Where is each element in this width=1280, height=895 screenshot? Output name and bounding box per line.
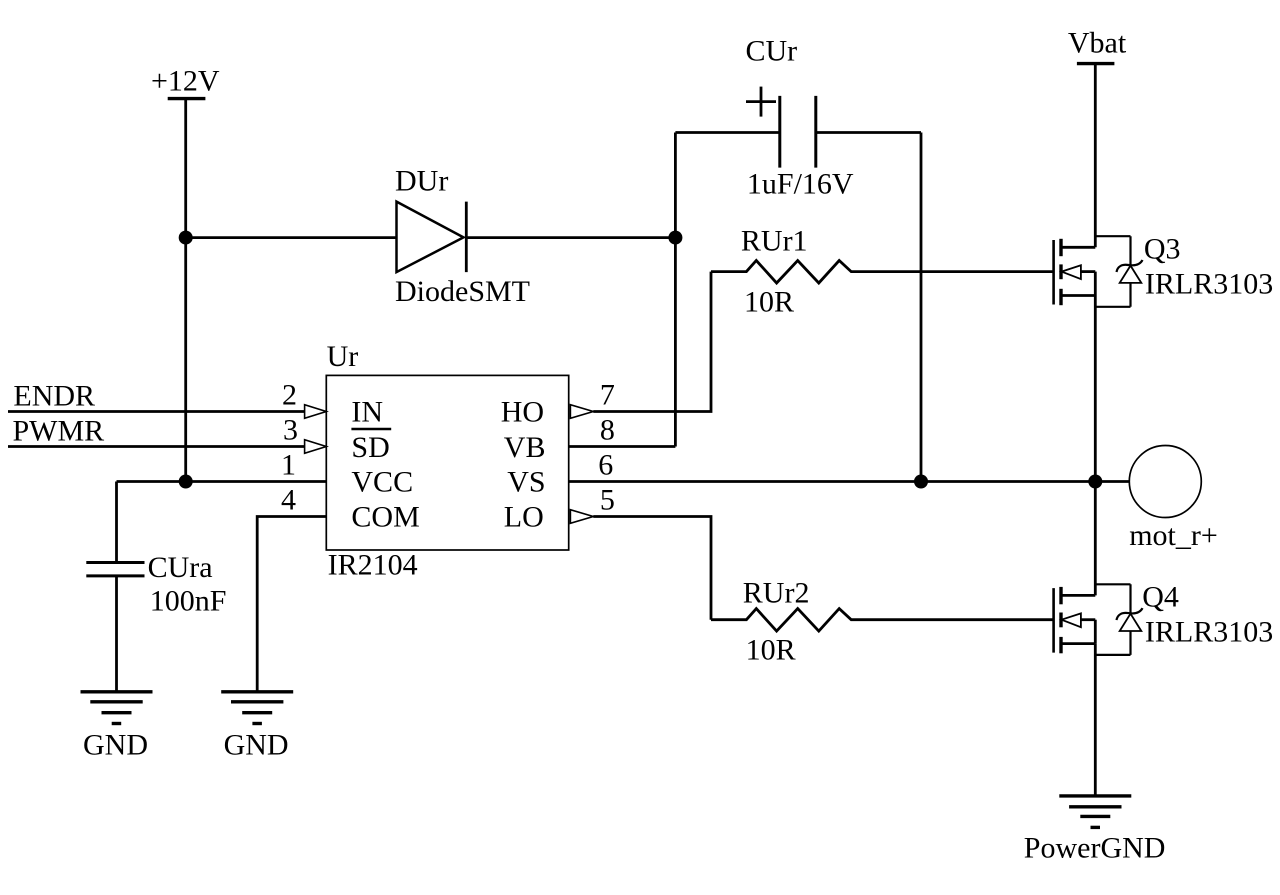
value IRLR3103 Q4 xyxy=(1145,616,1273,649)
node junction +12V/VCC xyxy=(179,475,193,489)
svg-text:VS: VS xyxy=(507,466,545,499)
svg-text:2: 2 xyxy=(282,379,297,412)
wire CUr left lead xyxy=(675,131,779,134)
node junction CUr/VS xyxy=(914,475,928,489)
label GND com xyxy=(224,729,289,762)
svg-text:Q4: Q4 xyxy=(1142,581,1179,614)
value 1uF/16V xyxy=(747,168,854,201)
label CUr xyxy=(746,35,798,68)
svg-text:LO: LO xyxy=(504,501,544,534)
svg-text:IRLR3103: IRLR3103 xyxy=(1145,268,1273,301)
node junction +12V/diode anode xyxy=(179,231,193,245)
svg-text:CUr: CUr xyxy=(746,35,798,68)
svg-text:GND: GND xyxy=(83,729,148,762)
wire HO to RUr1 xyxy=(593,272,711,412)
svg-text:VCC: VCC xyxy=(351,466,413,499)
wire CUr right lead xyxy=(816,131,921,134)
wire Q4 source to PowerGND xyxy=(1094,644,1097,796)
pin label IN xyxy=(351,396,383,429)
svg-text:IRLR3103: IRLR3103 xyxy=(1145,616,1273,649)
label Q3 xyxy=(1144,233,1181,266)
pin 5 output arrow LO xyxy=(570,510,593,524)
overbar of SD xyxy=(351,428,391,431)
svg-text:Q3: Q3 xyxy=(1144,233,1181,266)
svg-text:COM: COM xyxy=(351,501,419,534)
wire COM pin 4 xyxy=(257,517,326,692)
label DUr xyxy=(395,165,448,198)
svg-text:ENDR: ENDR xyxy=(13,380,95,413)
wire VS to Q4 drain xyxy=(1094,482,1097,596)
value IR2104 xyxy=(328,549,418,582)
pin number 7 xyxy=(600,379,615,412)
label PowerGND xyxy=(1024,832,1166,865)
pin number 2 xyxy=(282,379,297,412)
capacitor CUr xyxy=(746,87,816,168)
pin number 5 xyxy=(600,484,615,517)
svg-text:VB: VB xyxy=(504,431,546,464)
wire +12V vertical rail xyxy=(184,99,187,482)
svg-text:4: 4 xyxy=(281,484,296,517)
svg-text:RUr2: RUr2 xyxy=(743,577,810,610)
label mot_r+ xyxy=(1129,519,1218,552)
value 100nF xyxy=(150,585,227,618)
svg-text:3: 3 xyxy=(283,414,298,447)
svg-text:DUr: DUr xyxy=(395,165,448,198)
resistor RUr1 xyxy=(711,261,1054,284)
svg-text:Ur: Ur xyxy=(327,340,359,373)
pin label SD xyxy=(351,431,389,464)
wire diode cathode to VB rail xyxy=(466,236,675,239)
value DiodeSMT xyxy=(395,275,530,308)
label CUra xyxy=(148,551,213,584)
svg-text:1uF/16V: 1uF/16V xyxy=(747,168,854,201)
svg-text:HO: HO xyxy=(501,396,544,429)
svg-text:mot_r+: mot_r+ xyxy=(1129,519,1218,552)
wire ENDR to pin 2 xyxy=(8,410,306,413)
pin label VB xyxy=(504,431,546,464)
wire VS pin 6 xyxy=(569,480,1129,483)
svg-text:RUr1: RUr1 xyxy=(741,225,808,258)
pin 7 output arrow HO xyxy=(570,405,593,419)
net label PWMR xyxy=(13,415,105,448)
svg-text:Vbat: Vbat xyxy=(1068,27,1127,60)
IC U r IR2104 box xyxy=(326,375,568,550)
wire LO to RUr2 xyxy=(593,517,711,620)
pin number 6 xyxy=(598,449,613,482)
wire VB vertical rail xyxy=(674,133,677,447)
svg-text:1: 1 xyxy=(281,449,296,482)
port mot_r+ circle xyxy=(1129,446,1201,518)
wire VB pin 8 xyxy=(569,445,676,448)
svg-text:PWMR: PWMR xyxy=(13,415,105,448)
net label ENDR xyxy=(13,380,95,413)
pin number 1 xyxy=(281,449,296,482)
pin label LO xyxy=(504,501,544,534)
wire Q3 source to VS xyxy=(1094,296,1097,482)
svg-text:DiodeSMT: DiodeSMT xyxy=(395,275,530,308)
node junction diode/VB rail xyxy=(668,231,682,245)
pin 3 input arrow xyxy=(305,440,327,454)
svg-text:+12V: +12V xyxy=(151,65,220,98)
ground GND left xyxy=(81,692,153,724)
pin label HO xyxy=(501,396,544,429)
label RUr2 xyxy=(743,577,810,610)
pin 2 input arrow xyxy=(305,405,327,419)
svg-text:6: 6 xyxy=(598,449,613,482)
diode DUr xyxy=(397,202,467,273)
svg-text:5: 5 xyxy=(600,484,615,517)
label Q4 xyxy=(1142,581,1179,614)
resistor RUr2 xyxy=(711,609,1054,632)
label RUr1 xyxy=(741,225,808,258)
svg-text:10R: 10R xyxy=(744,286,794,319)
pin label VS xyxy=(507,466,545,499)
pin label COM xyxy=(351,501,419,534)
power flag +12V xyxy=(151,65,220,99)
wire PWMR to pin 3 xyxy=(8,445,306,448)
pin number 4 xyxy=(281,484,296,517)
svg-text:GND: GND xyxy=(224,729,289,762)
svg-text:CUra: CUra xyxy=(148,551,213,584)
svg-text:IN: IN xyxy=(351,396,383,429)
wire VCC pin 1 xyxy=(117,480,327,483)
svg-text:8: 8 xyxy=(600,414,615,447)
pin number 3 xyxy=(283,414,298,447)
wire CUra to GND xyxy=(115,576,118,692)
svg-text:7: 7 xyxy=(600,379,615,412)
svg-text:IR2104: IR2104 xyxy=(328,549,418,582)
value IRLR3103 Q3 xyxy=(1145,268,1273,301)
wire +12V to diode anode xyxy=(186,236,397,239)
wire CUr right vertical to VS xyxy=(920,133,923,482)
value 10R 2 xyxy=(746,634,796,667)
pin number 8 xyxy=(600,414,615,447)
transistor Q3 xyxy=(1054,236,1143,307)
ground PowerGND xyxy=(1059,796,1131,828)
svg-text:10R: 10R xyxy=(746,634,796,667)
svg-text:PowerGND: PowerGND xyxy=(1024,832,1166,865)
label Ur xyxy=(327,340,359,373)
wire VCC to CUra xyxy=(115,482,118,563)
node junction Q3/VS xyxy=(1088,475,1102,489)
label GND left xyxy=(83,729,148,762)
transistor Q4 xyxy=(1054,584,1143,655)
pin label VCC xyxy=(351,466,413,499)
capacitor CUra xyxy=(86,563,144,576)
svg-text:100nF: 100nF xyxy=(150,585,227,618)
value 10R xyxy=(744,286,794,319)
svg-text:SD: SD xyxy=(351,431,389,464)
power flag Vbat xyxy=(1068,27,1127,64)
wire Vbat to Q3 drain xyxy=(1094,64,1097,248)
ground GND com xyxy=(221,692,293,724)
